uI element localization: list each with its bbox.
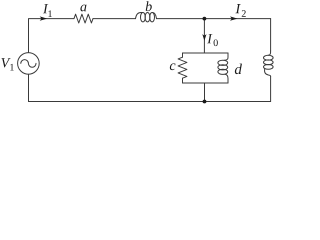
wire right vertical top bbox=[270, 19, 272, 51]
current arrow I2 bbox=[230, 16, 238, 20]
label d bbox=[235, 64, 242, 75]
wire box left bottom stub bbox=[182, 78, 184, 83]
node junction top bbox=[203, 17, 207, 21]
resistor a bbox=[74, 14, 93, 23]
label a bbox=[80, 5, 86, 12]
label I1 bbox=[43, 4, 52, 17]
node junction bottom bbox=[203, 100, 207, 104]
wire bottom bbox=[29, 101, 271, 103]
wire box top bar bbox=[183, 52, 229, 54]
resistor c bbox=[178, 57, 187, 78]
voltage source V1 bbox=[18, 53, 40, 75]
wire a to b bbox=[93, 18, 136, 20]
wire box left top stub bbox=[182, 53, 184, 57]
label I2 bbox=[235, 4, 245, 17]
label c bbox=[170, 63, 176, 70]
wire b to right corner bbox=[157, 18, 271, 20]
wire right vertical bottom bbox=[270, 76, 272, 101]
wire source bottom to bottom-left corner bbox=[28, 74, 30, 101]
inductor right bbox=[264, 51, 274, 76]
current arrow I1 bbox=[40, 16, 48, 20]
label I0 bbox=[207, 34, 218, 46]
wire box bottom to bottom junction bbox=[204, 83, 206, 102]
wire box bottom bar bbox=[183, 82, 229, 84]
current arrow I0 bbox=[202, 34, 206, 41]
label b bbox=[146, 1, 152, 11]
wire top-left (source top to resistor a) bbox=[29, 19, 75, 53]
label V1 bbox=[1, 58, 13, 70]
wire middle branch (junction to box top) bbox=[203, 19, 205, 53]
inductor d bbox=[218, 53, 228, 83]
inductor b bbox=[136, 13, 157, 22]
